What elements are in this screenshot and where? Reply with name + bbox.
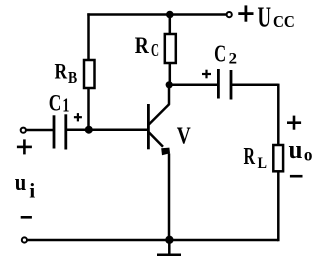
label +Ucc plus <box>238 5 253 21</box>
label RL <box>244 143 268 172</box>
wire emitter vertical <box>168 154 171 241</box>
label Ucc text <box>258 2 295 33</box>
svg-text:C: C <box>214 42 226 68</box>
svg-text:CC: CC <box>273 12 295 31</box>
node base junction <box>85 126 93 134</box>
terminal input top <box>21 128 26 133</box>
label C2 <box>214 42 237 68</box>
svg-text:B: B <box>68 68 77 87</box>
svg-text:U: U <box>258 2 272 33</box>
svg-text:R: R <box>55 59 68 84</box>
svg-text:o: o <box>304 145 313 165</box>
label plus input <box>17 139 32 154</box>
svg-text:u: u <box>289 135 303 164</box>
svg-text:u: u <box>15 170 26 196</box>
resistor RB <box>84 60 95 88</box>
label plus output <box>287 116 301 130</box>
svg-text:R: R <box>135 33 150 59</box>
wire RB top <box>87 13 90 60</box>
wire RL bottom <box>277 171 280 241</box>
svg-text:C: C <box>151 40 159 60</box>
svg-text:C: C <box>49 90 62 116</box>
resistor RC <box>165 34 176 63</box>
wire C1 to base <box>66 129 148 132</box>
svg-text:2: 2 <box>229 51 237 68</box>
wire collector to C2 <box>169 84 217 87</box>
wire input to C1 <box>27 129 54 132</box>
label minus input <box>21 216 32 219</box>
label C1 <box>49 90 70 116</box>
label RC <box>135 33 159 60</box>
label ui <box>15 170 36 202</box>
svg-text:R: R <box>244 143 256 170</box>
svg-text:V: V <box>177 123 192 149</box>
node emitter junction <box>165 236 173 244</box>
polarity plus C1 <box>74 113 82 121</box>
wire C2 to RL corner <box>231 84 278 145</box>
label uo <box>289 135 313 165</box>
wire RC bottom <box>169 63 172 85</box>
polarity plus C2 <box>202 70 211 79</box>
wire bottom rail <box>28 239 279 242</box>
terminal +Ucc <box>227 12 232 17</box>
ground <box>157 240 181 255</box>
terminal input bottom <box>22 237 27 242</box>
svg-text:1: 1 <box>62 94 69 116</box>
wire RC top <box>169 15 172 35</box>
transistor V <box>148 85 170 155</box>
wire RB bottom <box>87 88 90 130</box>
node collector junction <box>166 81 173 88</box>
capacitor C2 <box>218 69 231 100</box>
label minus output <box>290 175 303 178</box>
wire top rail <box>87 13 226 16</box>
label RB <box>55 59 78 88</box>
svg-text:L: L <box>258 155 268 172</box>
node top junction <box>166 11 174 19</box>
resistor RL <box>273 145 283 171</box>
svg-text:i: i <box>29 178 35 202</box>
capacitor C1 <box>54 114 66 149</box>
